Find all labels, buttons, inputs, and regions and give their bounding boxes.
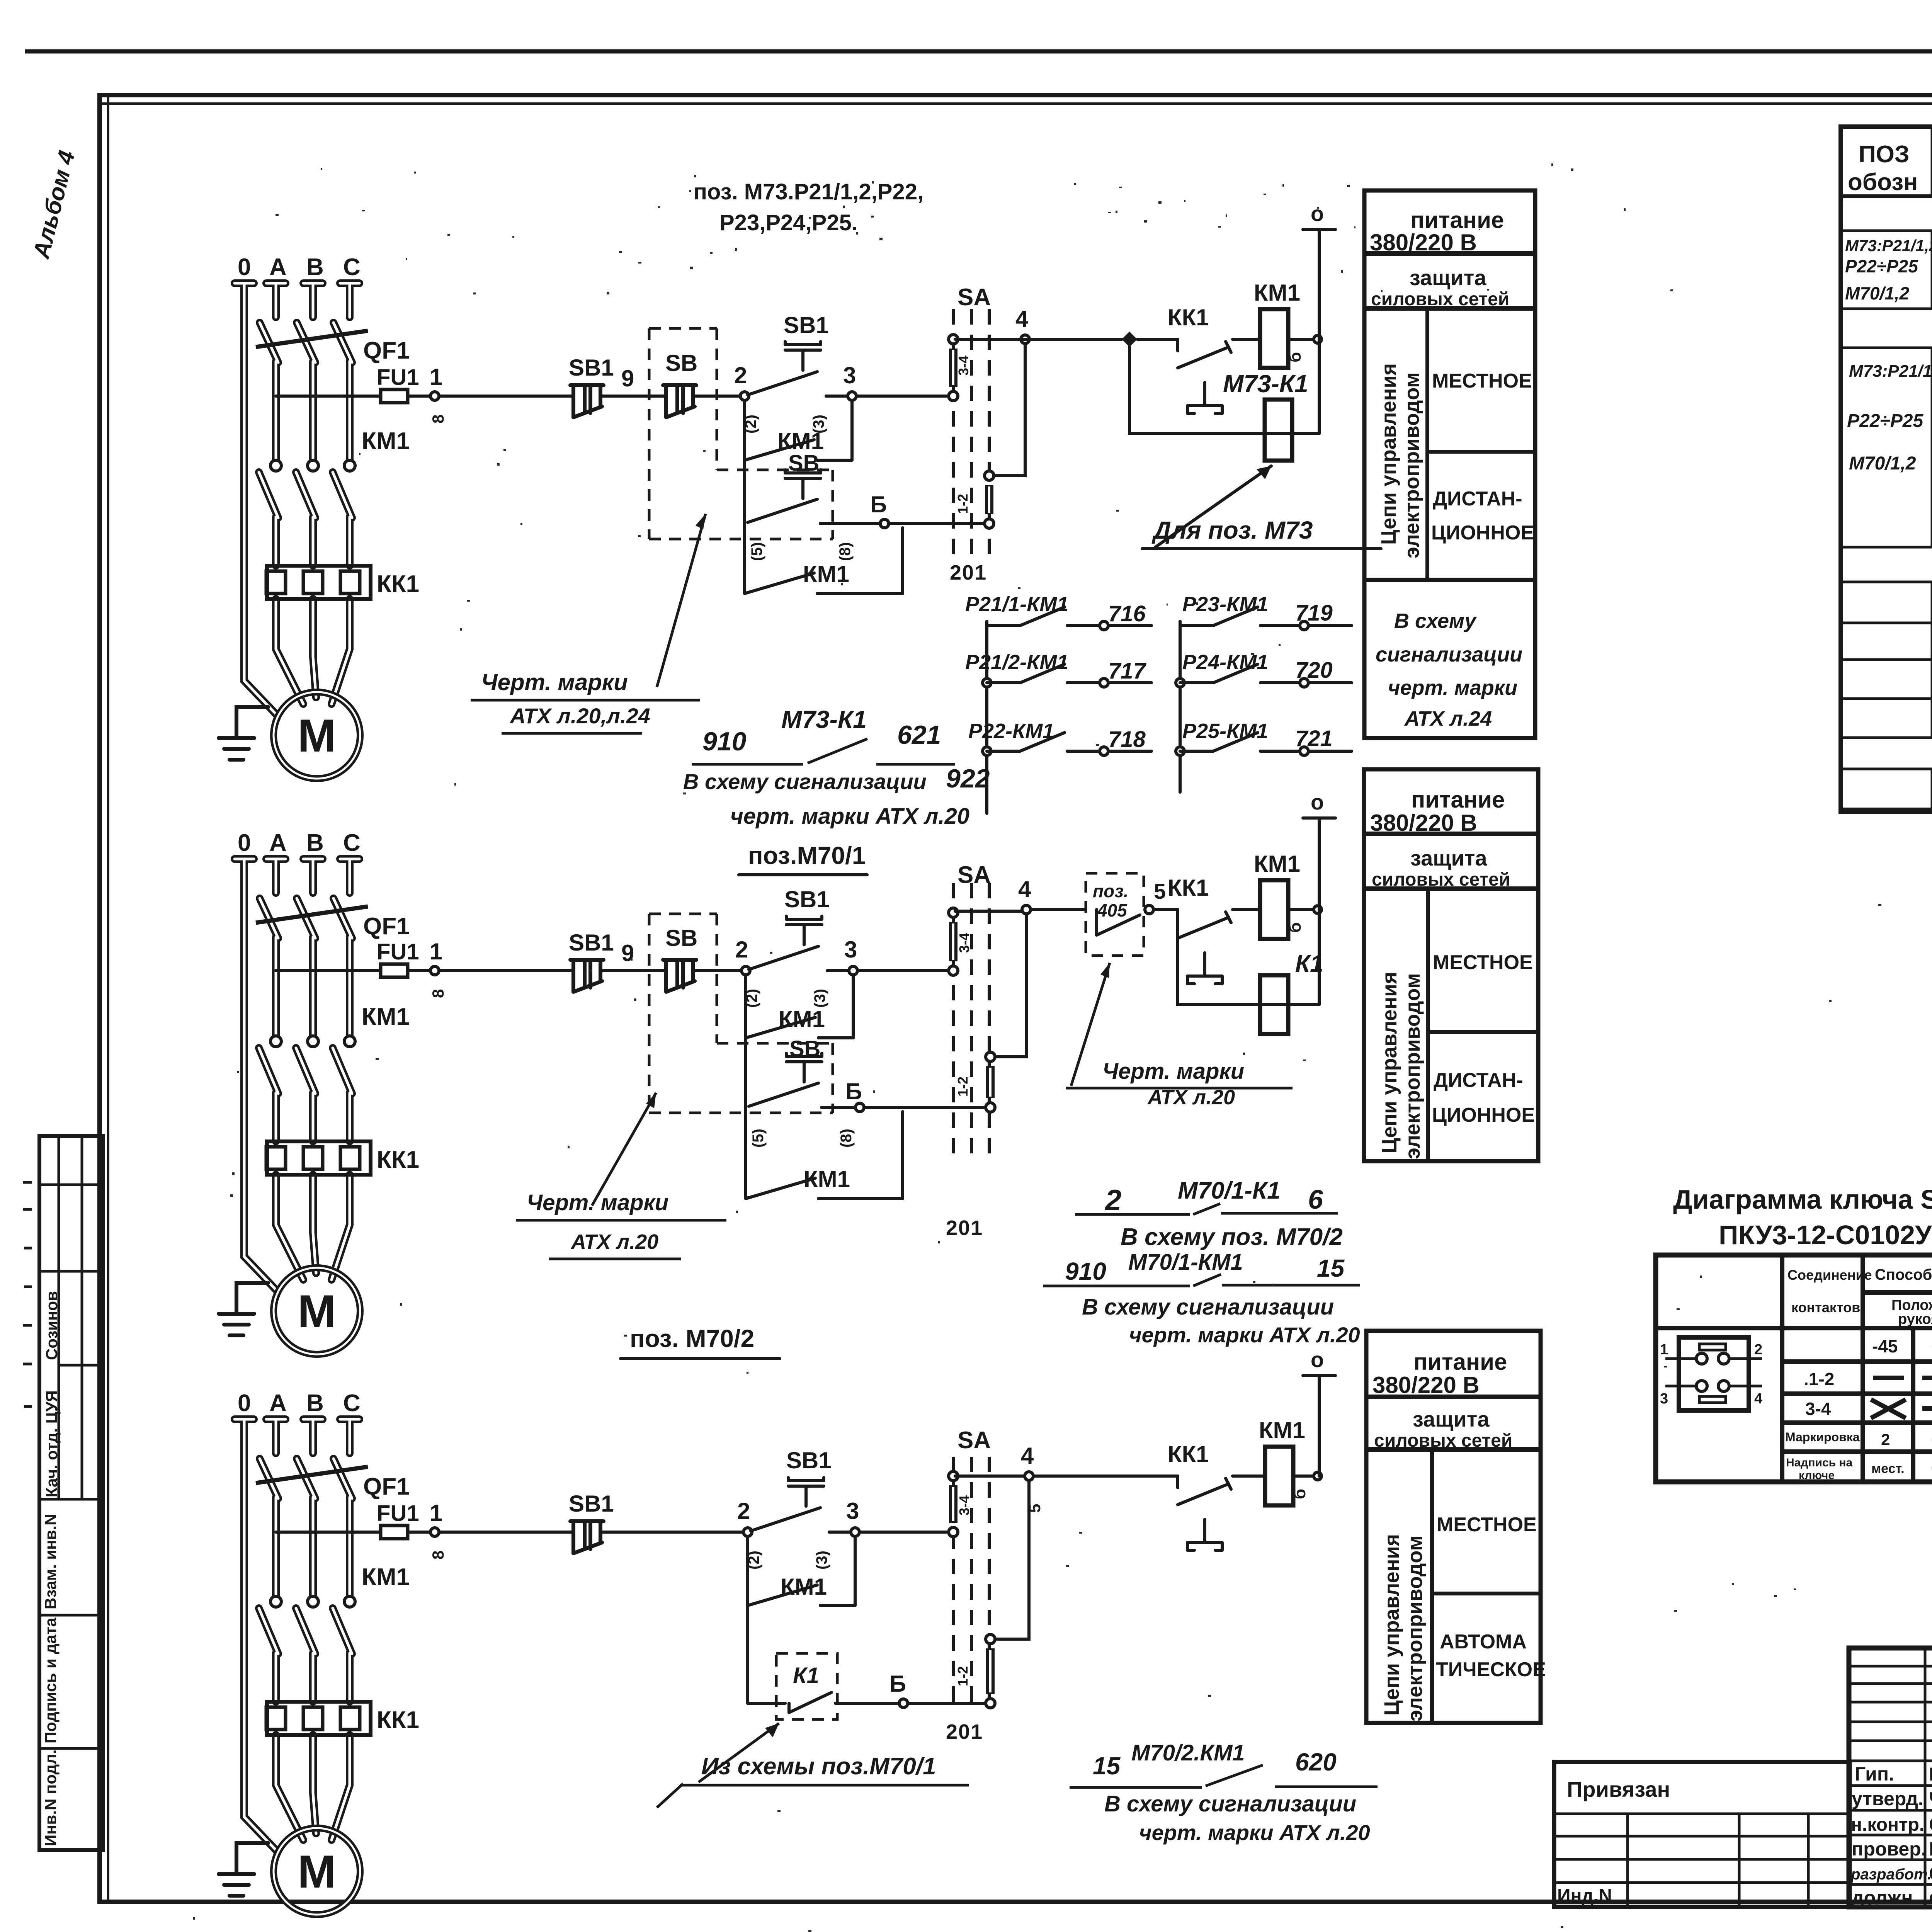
svg-text:3-4: 3-4 (956, 1495, 972, 1515)
svg-text:фамилия: фамилия (1929, 1887, 1932, 1908)
svg-text:М70/1,2: М70/1,2 (1849, 453, 1916, 474)
key symbol square (1679, 1337, 1749, 1410)
svg-text:9: 9 (621, 940, 634, 966)
node Б (880, 519, 889, 528)
привязан row lines (1554, 1814, 1850, 1883)
start button SB1 actuator (786, 916, 822, 945)
svg-text:SB: SB (789, 1036, 821, 1061)
svg-text:утверд.: утверд. (1852, 1788, 1923, 1810)
svg-text:М70/1-К1: М70/1-К1 (1178, 1177, 1281, 1204)
box2 mestnoe divider (1428, 1030, 1538, 1034)
svg-text:черт. марки АТХ л.20: черт. марки АТХ л.20 (1129, 1323, 1360, 1347)
coil terminal node (1314, 906, 1321, 913)
svg-text:КМ1: КМ1 (1259, 1417, 1305, 1443)
wire (748, 1702, 785, 1705)
wire (821, 1106, 855, 1109)
SA contact 3-4 capsule bar (949, 1485, 957, 1523)
svg-text:Для поз. М73: Для поз. М73 (1151, 516, 1313, 544)
svg-text:FU1: FU1 (377, 365, 419, 390)
callout slant tick (657, 1784, 683, 1808)
svg-text:КМ1: КМ1 (779, 1006, 825, 1032)
svg-text:910: 910 (702, 727, 747, 756)
svg-text:МЕСТНОЕ: МЕСТНОЕ (1432, 370, 1532, 392)
svg-text:силовых сетей: силовых сетей (1372, 869, 1510, 890)
svg-text:КК1: КК1 (1168, 1441, 1209, 1467)
KM1 selfhold branch wires (746, 975, 853, 1038)
svg-text:2: 2 (735, 937, 748, 963)
svg-text:(8): (8) (838, 1129, 855, 1148)
svg-text:1-2: 1-2 (955, 1077, 971, 1097)
svg-text:Стародубец: Стародубец (1929, 1815, 1932, 1835)
svg-text:М73:Р21/1,2.: М73:Р21/1,2. (1845, 236, 1932, 255)
svg-text:обозн: обозн (1848, 169, 1918, 196)
parts table outer border (1841, 127, 1932, 811)
svg-text:(3): (3) (813, 1551, 830, 1570)
svg-text:Бояринцева: Бояринцева (1929, 1764, 1932, 1785)
start button SB1 contact blade (751, 1508, 820, 1531)
svg-text:В схему сигнализации: В схему сигнализации (683, 769, 927, 794)
lower remote button SB actuator (785, 470, 821, 498)
svg-text:6: 6 (1308, 1184, 1323, 1214)
svg-text:б: б (1290, 1489, 1309, 1499)
svg-text:В схему: В схему (1394, 609, 1477, 633)
svg-text:2: 2 (1881, 1430, 1890, 1449)
svg-text:3-4: 3-4 (956, 355, 971, 376)
left stamp column (23, 1136, 103, 1850)
svg-text:защита: защита (1410, 846, 1487, 870)
svg-text:8: 8 (429, 415, 447, 423)
lower SB contact blade (749, 1083, 818, 1106)
KK1 NC contact (1178, 1476, 1231, 1505)
svg-text:2: 2 (1104, 1184, 1121, 1217)
svg-text:мест.: мест. (1871, 1461, 1905, 1476)
marginal dashes left of stamp (23, 1182, 32, 1406)
svg-text:черт. марки АТХ л.20: черт. марки АТХ л.20 (1139, 1820, 1370, 1845)
callout arrow to SB box (592, 1093, 656, 1206)
svg-text:АВТОМА: АВТОМА (1440, 1631, 1527, 1653)
label box 1 (1364, 190, 1535, 738)
svg-text:КМ1: КМ1 (804, 1166, 850, 1192)
wire (602, 1531, 743, 1534)
KK1 thermal glyph (1187, 1519, 1222, 1550)
svg-text:должн.: должн. (1852, 1887, 1918, 1908)
callout arrow to K1 box (699, 1723, 779, 1782)
start button SB1 actuator (785, 342, 821, 370)
SA contact 1-2 bottom circle (985, 519, 994, 528)
wire (827, 969, 849, 972)
drawing frame inner top line (102, 102, 1932, 105)
svg-text:ДИСТАН-: ДИСТАН- (1434, 1069, 1523, 1092)
circuit 3 control (276, 1347, 1378, 1845)
1-2 dash at 0 (1922, 1376, 1932, 1380)
upper control wire from SA (955, 1475, 1178, 1478)
wire (695, 969, 742, 972)
svg-text:Взам. инв.N: Взам. инв.N (41, 1514, 60, 1609)
svg-text:3: 3 (1660, 1391, 1668, 1407)
callout arrow to SB box (657, 514, 706, 687)
upper control wire to KK1 (955, 338, 1122, 341)
lower KM1 branch (746, 1107, 903, 1199)
SA contact 3-4 top circle (949, 1471, 958, 1481)
svg-text:621: 621 (897, 720, 941, 750)
feeder junction nodes (983, 679, 991, 687)
parts table bottom double line (1841, 808, 1932, 811)
svg-text:Соединение: Соединение (1787, 1267, 1872, 1283)
node 4 (1025, 1472, 1033, 1480)
remote button SB (663, 960, 696, 992)
remote SB dashed enclosure (649, 328, 833, 539)
box3 outer border (1366, 1331, 1541, 1723)
wire (695, 395, 740, 398)
SA key diagram table (1656, 1255, 1932, 1482)
contact row P21/1-KM1 (987, 607, 1151, 626)
KM1 selfhold contact blade (746, 1017, 815, 1038)
svg-text:4: 4 (1754, 1391, 1762, 1407)
svg-text:провер.: провер. (1852, 1838, 1927, 1860)
svg-text:380/220 В: 380/220 В (1370, 810, 1477, 836)
svg-text:SA: SA (957, 862, 991, 888)
box1 column line (1425, 308, 1429, 580)
note underlines (692, 763, 955, 766)
wire (1233, 1475, 1265, 1478)
svg-text:FU1: FU1 (377, 939, 419, 964)
svg-text:М73-К1: М73-К1 (781, 706, 867, 733)
svg-text:поз. М73.Р21/1,2,Р22,: поз. М73.Р21/1,2,Р22, (694, 179, 923, 204)
svg-text:Б: Б (845, 1078, 862, 1104)
contact row P25-KM1 (1180, 733, 1352, 751)
svg-text:контактов: контактов (1791, 1299, 1860, 1315)
svg-text:405: 405 (1097, 900, 1128, 920)
wire (408, 395, 430, 398)
relay coil K1 (1260, 975, 1288, 1034)
SA contact 1-2 top circle (985, 471, 994, 480)
svg-text:силовых сетей: силовых сетей (1371, 289, 1509, 310)
svg-text:поз.М70/1: поз.М70/1 (748, 842, 866, 869)
SA contact 3-4 capsule bar (949, 349, 957, 387)
1-2 dash at -45 (1873, 1376, 1904, 1380)
SA diagram column lines (1782, 1255, 1863, 1482)
box1 mestnoe divider (1427, 450, 1535, 454)
svg-text:SA: SA (957, 1427, 991, 1454)
svg-text:питание: питание (1410, 207, 1504, 233)
SA contact 3-4 capsule bar (949, 922, 957, 961)
box2 column line (1426, 889, 1430, 1161)
svg-text:питание: питание (1411, 787, 1505, 813)
svg-text:Р21/2-КМ1: Р21/2-КМ1 (965, 651, 1068, 674)
svg-text:В схему поз. М70/2: В схему поз. М70/2 (1121, 1224, 1343, 1250)
svg-text:Скачкова: Скачкова (1929, 1863, 1932, 1884)
node 2 (743, 1528, 752, 1536)
node 1 (430, 392, 439, 400)
callout arrow to поз405 box (1071, 963, 1110, 1086)
svg-text:3-4: 3-4 (956, 933, 972, 953)
link from node 4 to SA lower contact (995, 1480, 1029, 1639)
selector switch SA dashed poles (953, 1457, 989, 1711)
svg-text:Цепи управления: Цепи управления (1380, 1534, 1403, 1716)
svg-text:201: 201 (946, 1720, 983, 1743)
K1 remote dashed box (776, 1653, 837, 1719)
SA diagram row lines (1656, 1293, 1932, 1452)
svg-text:защита: защита (1410, 265, 1486, 290)
svg-text:КМ1: КМ1 (781, 1574, 827, 1600)
callout underlines (516, 1220, 726, 1259)
SA contact 3-4 bottom circle (949, 966, 958, 975)
lower SB contact blade (748, 499, 817, 522)
drawing frame inner left line (107, 97, 109, 1900)
node 3 (849, 966, 857, 975)
svg-text:718: 718 (1108, 727, 1146, 752)
svg-text:3: 3 (843, 362, 856, 388)
svg-text:б: б (1286, 922, 1304, 933)
svg-text:КК1: КК1 (1168, 875, 1209, 901)
relay loop wire (1129, 347, 1319, 434)
wire tap from breaker (276, 395, 381, 398)
svg-text:М70/2.КМ1: М70/2.КМ1 (1131, 1740, 1245, 1765)
svg-text:719: 719 (1295, 600, 1333, 626)
wire (835, 1702, 899, 1705)
поз 405 contact (1097, 910, 1140, 935)
привязан outer border (1554, 1762, 1850, 1907)
upper control wire from SA (955, 910, 1086, 911)
start button SB1 contact blade (748, 372, 817, 395)
wire to SA (908, 1702, 986, 1705)
remote SB dashed enclosure (649, 914, 833, 1113)
branch wire down (744, 1038, 747, 1107)
svg-text:В схему сигнализации: В схему сигнализации (1082, 1294, 1334, 1320)
SA contact 1-2 capsule bar (985, 485, 993, 514)
key contact circles (1696, 1353, 1707, 1364)
SA contact 1-2 bottom circle (986, 1699, 995, 1708)
svg-text:ПКУ3-12-С0102У3: ПКУ3-12-С0102У3 (1719, 1220, 1932, 1250)
привязан block (1554, 1762, 1850, 1907)
wire (408, 1531, 430, 1534)
wire tap from breaker (276, 1531, 381, 1534)
stop button SB1 (570, 960, 604, 992)
svg-text:717: 717 (1108, 658, 1147, 684)
box2 row lines (1364, 834, 1538, 889)
svg-text:9: 9 (621, 366, 634, 391)
svg-text:ключе: ключе (1799, 1469, 1835, 1482)
M73 signal link note (683, 706, 969, 829)
svg-text:М73-К1: М73-К1 (1223, 370, 1308, 398)
svg-text:сигнализации: сигнализации (1376, 643, 1522, 666)
note contact blade (808, 739, 867, 763)
SA contact 1-2 top circle (986, 1052, 995, 1061)
label box 2 (1364, 769, 1538, 1161)
svg-text:электроприводом: электроприводом (1400, 372, 1423, 558)
svg-text:1: 1 (1660, 1342, 1668, 1358)
svg-text:SB1: SB1 (569, 355, 614, 381)
fuse FU1 (381, 964, 408, 977)
svg-text:МЕСТНОЕ: МЕСТНОЕ (1433, 951, 1533, 974)
SA contact 1-2 top circle (986, 1634, 995, 1644)
svg-text:защита: защита (1413, 1407, 1490, 1431)
node 5 (1145, 905, 1153, 914)
left feeder wire 922 (985, 621, 988, 813)
svg-text:Цепи управления: Цепи управления (1377, 363, 1400, 545)
title block revision grid rows (1849, 1666, 1932, 1741)
SA diagram outer border (1656, 1255, 1932, 1482)
svg-text:ДИСТАН-: ДИСТАН- (1433, 488, 1522, 510)
svg-text:Р23-КМ1: Р23-КМ1 (1182, 593, 1268, 616)
parts table (1841, 127, 1932, 811)
svg-text:Р21/1-КМ1: Р21/1-КМ1 (965, 593, 1068, 616)
svg-text:5: 5 (1154, 879, 1166, 903)
svg-text:Цепи управления: Цепи управления (1378, 972, 1401, 1153)
box3 column line (1430, 1449, 1434, 1723)
right feeder junction nodes (1176, 679, 1184, 687)
svg-text:SB1: SB1 (784, 312, 829, 338)
svg-text:3: 3 (844, 937, 857, 963)
svg-text:.1-2: .1-2 (1804, 1369, 1834, 1389)
selector switch SA dashed poles (953, 309, 989, 554)
note underlines (1043, 1285, 1360, 1286)
SA contact 1-2 bottom circle (986, 1103, 995, 1112)
svg-text:Р23,Р24,Р25.: Р23,Р24,Р25. (719, 210, 858, 235)
SA contact 1-2 capsule bar (986, 1648, 995, 1694)
relay loop wire (1178, 910, 1319, 1005)
svg-text:Р22-КМ1: Р22-КМ1 (968, 719, 1054, 743)
svg-text:черт. марки: черт. марки (1388, 676, 1517, 699)
svg-text:Подпись и дата: Подпись и дата (41, 1617, 60, 1743)
svg-text:рукоятки: рукоятки (1898, 1311, 1932, 1327)
box2 outer border (1364, 769, 1538, 1161)
wire to SA (864, 1106, 986, 1109)
wire (820, 522, 880, 525)
circuit 2 control (276, 790, 1360, 1347)
svg-text:201: 201 (946, 1216, 983, 1240)
svg-text:4: 4 (1015, 306, 1029, 332)
callout underline (1142, 547, 1381, 550)
power section circuit 2 (219, 830, 419, 1354)
svg-text:Инв.N подл.: Инв.N подл. (41, 1749, 60, 1846)
stamp sub column lines (59, 1136, 82, 1499)
wire (1233, 338, 1260, 341)
SA contact 3-4 bottom circle (949, 391, 958, 401)
wire to SA (859, 1531, 946, 1534)
svg-text:ЦИОННОЕ: ЦИОННОЕ (1431, 522, 1534, 544)
svg-text:ТИЧЕСКОЕ: ТИЧЕСКОЕ (1436, 1658, 1546, 1681)
svg-text:б: б (1286, 352, 1304, 362)
svg-text:Черт. марки: Черт. марки (481, 669, 628, 695)
svg-text:Из схемы поз.М70/1: Из схемы поз.М70/1 (701, 1753, 936, 1780)
svg-text:SA: SA (957, 284, 991, 311)
title block revision grid verticals (1925, 1648, 1932, 1907)
svg-text:(8): (8) (837, 542, 854, 561)
remote button SB (663, 385, 696, 417)
svg-text:(5): (5) (750, 1129, 767, 1148)
svg-text:Р22÷Р25: Р22÷Р25 (1847, 411, 1923, 431)
svg-text:АТХ л.20: АТХ л.20 (570, 1230, 658, 1253)
callout underline (1066, 1087, 1293, 1090)
svg-text:(3): (3) (811, 989, 828, 1008)
circuit 2 title underline (739, 873, 867, 876)
wire coil to neutral (1288, 338, 1315, 341)
contact row P22-KM1 (987, 733, 1151, 751)
SA contact 1-2 capsule bar (986, 1066, 995, 1098)
branch wire down (746, 1605, 749, 1703)
node 3 (848, 392, 856, 400)
wire (602, 395, 665, 398)
wire (439, 1531, 573, 1534)
svg-text:Чудинов.: Чудинов. (1929, 1788, 1932, 1811)
svg-text:1-2: 1-2 (955, 1666, 971, 1686)
svg-text:н.контр.: н.контр. (1851, 1815, 1924, 1835)
circuit 3 title underline (621, 1357, 780, 1360)
svg-text:8: 8 (429, 1551, 447, 1560)
KK1 NC contact (1178, 910, 1231, 938)
coil terminal node (1314, 1472, 1321, 1480)
relay coil M73-K1 (1265, 400, 1292, 461)
svg-text:КМ1: КМ1 (1254, 851, 1300, 877)
svg-text:15: 15 (1093, 1752, 1121, 1780)
SA contact 3-4 top circle (949, 335, 958, 344)
svg-text:Инд.N: Инд.N (1557, 1886, 1612, 1906)
svg-text:Надпись на: Надпись на (1786, 1456, 1853, 1469)
svg-text:922: 922 (946, 764, 990, 793)
svg-text:4: 4 (1021, 1443, 1034, 1469)
stamp outer border (39, 1136, 103, 1850)
svg-text:1-2: 1-2 (955, 494, 971, 514)
callout underline (680, 1784, 969, 1787)
note contact blade (1193, 1204, 1220, 1214)
svg-text:Васильева: Васильева (1929, 1838, 1932, 1860)
svg-text:Черт. марки: Черт. марки (1102, 1059, 1244, 1084)
parts table column line 1 (1931, 127, 1932, 811)
note underlines (1075, 1213, 1338, 1214)
node Б (855, 1103, 864, 1112)
svg-text:1: 1 (430, 1500, 442, 1526)
label box 3 (1366, 1331, 1546, 1723)
svg-text:721: 721 (1295, 726, 1333, 751)
svg-text:электроприводом: электроприводом (1401, 973, 1424, 1159)
junction diamond (1122, 332, 1137, 347)
svg-text:SB: SB (665, 350, 697, 376)
wire (1233, 908, 1260, 911)
svg-text:АТХ л.24: АТХ л.24 (1404, 707, 1492, 730)
svg-text:201: 201 (950, 561, 987, 584)
lower KM1 branch (745, 524, 903, 594)
node 1 (430, 966, 439, 975)
svg-text:720: 720 (1295, 658, 1333, 683)
svg-text:К1: К1 (1295, 951, 1323, 977)
wire (439, 395, 573, 398)
svg-text:поз. М70/2: поз. М70/2 (630, 1325, 754, 1352)
wire (829, 1531, 851, 1534)
box1 outer border (1364, 190, 1535, 738)
svg-text:Р24-КМ1: Р24-КМ1 (1182, 651, 1268, 674)
fuse FU1 (381, 389, 408, 403)
title block (1849, 1648, 1932, 1909)
node 2 (742, 966, 750, 975)
K1 contact blade (789, 1692, 832, 1713)
note contact blade (1206, 1765, 1263, 1786)
branch wire down (743, 460, 746, 524)
svg-text:716: 716 (1108, 601, 1146, 626)
svg-text:К1: К1 (793, 1663, 819, 1688)
selector switch SA dashed poles (953, 883, 989, 1161)
wire (408, 969, 430, 972)
svg-text:МЕСТНОЕ: МЕСТНОЕ (1437, 1514, 1537, 1536)
lower KM1 contact blade (745, 573, 814, 594)
svg-text:М70/1,2: М70/1,2 (1845, 283, 1910, 303)
box3 row lines (1366, 1397, 1541, 1449)
svg-text:-45: -45 (1872, 1336, 1898, 1356)
stamp row lines (39, 1185, 103, 1748)
wire (1153, 908, 1178, 911)
svg-text:М70/1-КМ1: М70/1-КМ1 (1128, 1250, 1243, 1275)
svg-text:SB1: SB1 (569, 930, 614, 956)
